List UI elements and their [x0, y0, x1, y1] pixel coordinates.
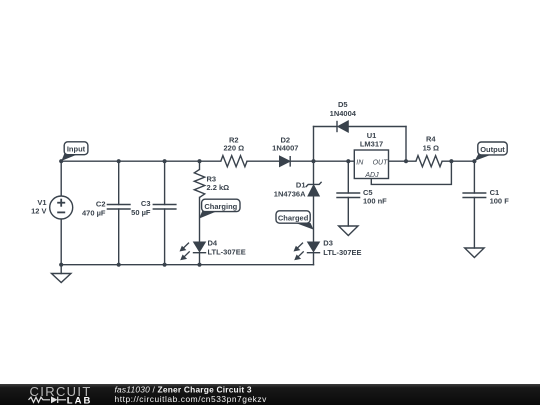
svg-text:Charging: Charging	[204, 202, 237, 211]
junction dot R4/ADJ output node	[449, 159, 453, 163]
wire V1 top lead	[60, 161, 62, 196]
svg-text:Charged: Charged	[278, 213, 309, 222]
svg-text:ADJ: ADJ	[364, 172, 379, 179]
node Charged flag	[276, 211, 314, 230]
wire node to D1 zener	[313, 161, 315, 184]
wire R3 to D4	[199, 197, 201, 242]
wire R2 to D2	[247, 160, 280, 162]
node Input flag	[61, 142, 87, 161]
label C2 value 470 uF	[82, 200, 106, 218]
label C3 value 50 uF	[131, 199, 151, 217]
junction dot output/C1	[472, 159, 476, 163]
label D3 value LTL-307EE	[323, 239, 361, 257]
wire D5 top right segment	[348, 126, 406, 128]
junction dot R3 top	[197, 159, 201, 163]
label R4 value 15 Ohm	[423, 135, 439, 153]
wire D1 to D3	[313, 196, 315, 242]
label D1 value 1N4736A	[274, 181, 306, 199]
junction dot V1 bottom	[59, 263, 63, 267]
node Charging flag	[199, 199, 240, 218]
label D2 value 1N4007	[272, 136, 298, 153]
wire C3 bottom lead	[164, 209, 166, 265]
svg-text:15 Ω: 15 Ω	[423, 144, 439, 153]
resistor R2 horizontal	[221, 156, 247, 167]
wire U1 ADJ to output node	[371, 161, 451, 184]
svg-text:R3: R3	[207, 175, 217, 184]
svg-text:470 µF: 470 µF	[82, 208, 106, 217]
svg-text:C5: C5	[363, 188, 373, 197]
wire D5 left riser	[313, 127, 315, 162]
diode D5 1N4004	[337, 121, 348, 132]
svg-text:Output: Output	[480, 145, 505, 154]
wire C3 top lead	[164, 161, 166, 204]
label C5 value 100 nF	[363, 188, 387, 206]
junction dot U1 OUT/D5	[404, 159, 408, 163]
node Output flag	[475, 142, 508, 161]
wire U1 OUT to R4	[389, 160, 416, 162]
diode D2 1N4007	[280, 156, 291, 167]
LED D4 LTL-307EE	[180, 242, 207, 260]
label R2 value 220 Ohm	[223, 136, 244, 153]
label C1 value 100 F	[490, 188, 510, 205]
label D5 value 1N4004	[330, 100, 357, 118]
ground under C5	[339, 226, 358, 236]
wire D3 to bottom rail	[313, 254, 315, 265]
wire R3 top lead	[199, 161, 201, 169]
ground under C1	[465, 248, 484, 258]
voltage source V1 12 V	[50, 196, 73, 219]
svg-text:LTL-307EE: LTL-307EE	[208, 248, 246, 257]
svg-text:V1: V1	[37, 198, 46, 207]
svg-text:1N4007: 1N4007	[272, 144, 298, 153]
svg-text:12 V: 12 V	[31, 207, 46, 216]
wire C1 top lead	[473, 161, 475, 193]
label D4 value LTL-307EE	[208, 239, 246, 257]
op-amp U1 LM317 regulator box	[354, 150, 388, 179]
wire R4 to Output node	[442, 160, 474, 162]
wire C5 top lead	[347, 161, 349, 193]
svg-text:50 µF: 50 µF	[131, 208, 151, 217]
capacitor C3	[153, 205, 177, 210]
capacitor C2	[107, 205, 131, 210]
junction dot C3 top	[163, 159, 167, 163]
wire D2 to U1 IN	[290, 160, 354, 162]
wire V1 bottom lead to ground rail	[60, 219, 62, 274]
svg-text:LM317: LM317	[360, 139, 383, 148]
wire C2 bottom lead	[118, 209, 120, 265]
LED D3 LTL-307EE	[294, 242, 321, 260]
wire C1 bottom lead to ground	[473, 198, 475, 249]
label V1 value 12 V	[31, 198, 46, 216]
wire D5 right riser	[405, 127, 407, 162]
wire D5 top left segment	[314, 126, 338, 128]
svg-text:Input: Input	[67, 144, 86, 153]
capacitor C1	[462, 193, 486, 198]
resistor R3 vertical	[194, 169, 204, 197]
svg-text:1N4736A: 1N4736A	[274, 189, 306, 198]
svg-text:http://circuitlab.com/cn533pn7: http://circuitlab.com/cn533pn7gekzv	[115, 394, 268, 404]
svg-text:R4: R4	[426, 135, 436, 144]
svg-text:LAB: LAB	[67, 395, 93, 405]
svg-text:220 Ω: 220 Ω	[223, 144, 244, 153]
footer bar	[0, 384, 540, 405]
junction dot C5/U1 IN	[346, 159, 350, 163]
svg-text:1N4004: 1N4004	[330, 109, 357, 118]
svg-text:2.2 kΩ: 2.2 kΩ	[207, 183, 230, 192]
svg-text:D1: D1	[296, 181, 306, 190]
junction dot C2 bottom	[117, 263, 121, 267]
junction dot D4 bottom	[197, 263, 201, 267]
svg-text:D3: D3	[323, 239, 333, 248]
svg-text:D5: D5	[338, 100, 348, 109]
wire C2 top lead	[118, 161, 120, 204]
wire bottom rail	[61, 264, 313, 266]
svg-text:LTL-307EE: LTL-307EE	[323, 248, 361, 257]
wire D4 to bottom rail	[199, 254, 201, 265]
label R3 value 2.2 kOhm	[207, 175, 230, 193]
junction dot C2 top	[117, 159, 121, 163]
svg-text:IN: IN	[356, 159, 364, 166]
resistor R4 horizontal	[416, 156, 442, 167]
svg-text:D4: D4	[208, 239, 218, 248]
wire C5 bottom lead to ground	[347, 198, 349, 227]
junction dot input/V1	[59, 159, 63, 163]
label U1 LM317	[360, 131, 383, 149]
capacitor C5	[336, 193, 360, 198]
junction dot D1/D5 node	[311, 159, 315, 163]
svg-text:C3: C3	[141, 199, 151, 208]
svg-text:OUT: OUT	[373, 159, 389, 166]
ground under V1	[52, 274, 71, 283]
zener diode D1 1N4736A	[306, 182, 322, 196]
svg-text:100 nF: 100 nF	[363, 197, 387, 206]
svg-text:C2: C2	[96, 200, 106, 209]
wire main top: Input node to R2	[61, 160, 221, 162]
junction dot C3 bottom	[163, 263, 167, 267]
svg-text:100 F: 100 F	[490, 196, 510, 205]
